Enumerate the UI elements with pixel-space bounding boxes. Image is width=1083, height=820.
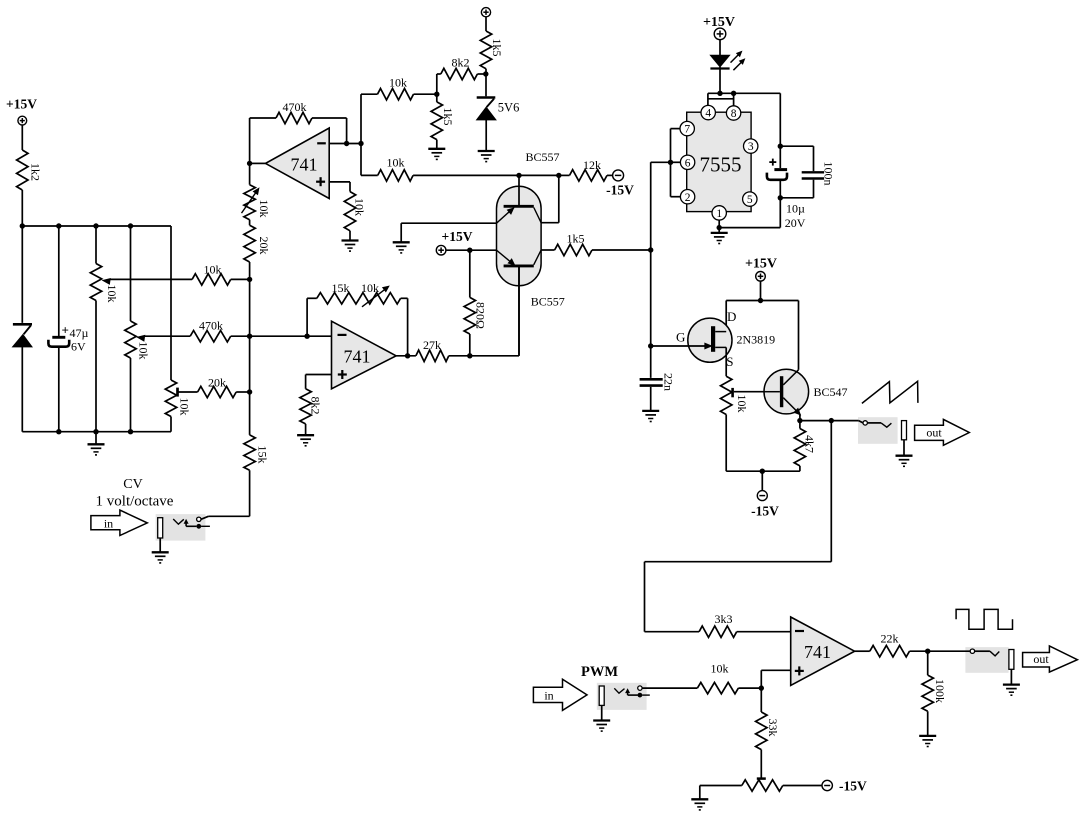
svg-text:10k: 10k: [178, 398, 192, 416]
svg-text:10k: 10k: [361, 281, 379, 295]
svg-text:10k: 10k: [257, 200, 271, 218]
svg-text:20k: 20k: [208, 375, 226, 389]
svg-text:out: out: [1033, 652, 1049, 666]
svg-text:820Ω: 820Ω: [474, 302, 488, 329]
svg-text:-15V: -15V: [751, 504, 779, 519]
svg-text:10k: 10k: [137, 342, 151, 360]
svg-text:27k: 27k: [423, 338, 441, 352]
svg-text:8: 8: [731, 108, 737, 120]
svg-text:in: in: [104, 516, 113, 530]
svg-text:15k: 15k: [256, 446, 270, 464]
svg-text:1: 1: [716, 208, 722, 220]
svg-text:1k2: 1k2: [29, 163, 43, 181]
svg-text:-15V: -15V: [839, 778, 867, 793]
svg-text:5: 5: [747, 194, 753, 206]
svg-text:3: 3: [748, 141, 754, 153]
svg-text:2: 2: [685, 192, 691, 204]
svg-text:1k5: 1k5: [567, 231, 585, 245]
svg-text:741: 741: [344, 347, 371, 367]
svg-text:10k: 10k: [387, 156, 405, 170]
svg-text:out: out: [926, 426, 942, 440]
svg-text:+15V: +15V: [6, 97, 37, 112]
svg-text:10k: 10k: [204, 263, 222, 277]
svg-text:12k: 12k: [583, 158, 601, 172]
svg-text:6V: 6V: [71, 340, 86, 354]
svg-text:15k: 15k: [332, 281, 350, 295]
svg-text:10µ: 10µ: [786, 202, 805, 216]
svg-text:5V6: 5V6: [498, 101, 520, 115]
svg-text:4k7: 4k7: [803, 435, 817, 453]
svg-text:BC547: BC547: [814, 385, 848, 399]
svg-text:470k: 470k: [199, 318, 223, 332]
svg-text:100n: 100n: [822, 162, 836, 186]
svg-text:100k: 100k: [933, 679, 947, 703]
svg-text:8k2: 8k2: [309, 397, 323, 415]
svg-text:22k: 22k: [881, 631, 899, 645]
svg-text:8k2: 8k2: [452, 56, 470, 70]
svg-text:6: 6: [685, 157, 691, 169]
svg-text:7: 7: [684, 124, 690, 136]
svg-text:BC557: BC557: [525, 150, 559, 164]
svg-text:20V: 20V: [785, 216, 806, 230]
svg-text:D: D: [727, 309, 736, 324]
svg-text:+15V: +15V: [442, 229, 473, 244]
svg-text:CV: CV: [123, 477, 142, 492]
svg-text:10k: 10k: [711, 662, 729, 676]
svg-text:470k: 470k: [283, 100, 307, 114]
svg-text:47µ: 47µ: [70, 326, 89, 340]
svg-text:1k5: 1k5: [490, 39, 504, 57]
svg-text:7555: 7555: [700, 153, 742, 177]
svg-text:22n: 22n: [662, 373, 676, 391]
svg-text:741: 741: [291, 155, 318, 175]
svg-text:33k: 33k: [766, 719, 780, 737]
svg-text:PWM: PWM: [581, 664, 618, 680]
svg-text:+15V: +15V: [745, 257, 777, 272]
svg-text:1 volt/octave: 1 volt/octave: [96, 494, 174, 510]
svg-text:1k5: 1k5: [441, 108, 455, 126]
svg-text:10k: 10k: [353, 198, 367, 216]
svg-text:10k: 10k: [389, 76, 407, 90]
svg-text:in: in: [544, 689, 553, 703]
svg-text:BC557: BC557: [531, 295, 565, 309]
svg-text:3k3: 3k3: [715, 612, 733, 626]
svg-text:+: +: [62, 323, 69, 338]
svg-text:10k: 10k: [735, 395, 749, 413]
svg-text:G: G: [676, 330, 685, 345]
svg-text:741: 741: [804, 642, 831, 662]
svg-text:-15V: -15V: [606, 183, 634, 198]
svg-text:10k: 10k: [105, 285, 119, 303]
svg-text:S: S: [726, 354, 733, 369]
svg-text:4: 4: [705, 108, 711, 120]
svg-text:2N3819: 2N3819: [737, 333, 776, 347]
svg-text:20k: 20k: [257, 237, 271, 255]
